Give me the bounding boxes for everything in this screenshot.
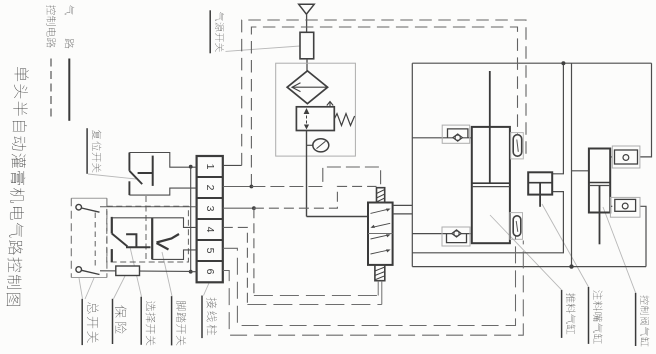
leader 推料气缸 from cylinder (490, 215, 562, 290)
svg-text:1: 1 (204, 164, 216, 170)
wire switch to filter (306, 59, 308, 71)
terminal block 接线柱 (197, 156, 223, 282)
air inlet triangle (299, 4, 315, 14)
air source switch valve (300, 32, 314, 59)
wire foot switch bottom to terminal5 (152, 250, 196, 260)
wire triangle to source switch (306, 14, 308, 32)
throttle check valve upper-left (442, 125, 470, 143)
reset switch wire bottom to terminal2 (129, 188, 196, 195)
wire bottom bus to lower-right throttle (640, 206, 646, 266)
label 推料气缸 (562, 290, 576, 338)
wire mid vertical to bottom bus (571, 63, 573, 266)
regulator spring (334, 114, 354, 126)
wire nozzle cylinder top port to top bus (552, 63, 563, 174)
svg-text:6: 6 (204, 269, 216, 275)
control wire terminal1 to upper reed switch (223, 164, 242, 166)
reset switch wire top to terminal1 (129, 153, 196, 168)
label 复位开关 (87, 128, 101, 174)
main switch mechanical linkage (94, 213, 96, 269)
main switch contact bottom (76, 267, 100, 275)
control wire terminal6 to lower reed switch (223, 241, 524, 336)
throttle check valve upper-right (612, 146, 640, 168)
pressure gauge (307, 139, 329, 152)
wire valve port A stub (393, 204, 413, 206)
main switch enclosure 总开关 (71, 198, 107, 277)
pneumatic bus bottom line (412, 266, 646, 268)
throttle check valve lower-right (610, 197, 640, 217)
reset switch NC pushbutton 复位开关 (129, 153, 152, 196)
reed switch lower (on cylinder) (510, 213, 523, 240)
legend air line label 气路 (65, 5, 75, 48)
label 注料嘴气缸 (589, 287, 603, 344)
svg-text:4: 4 (204, 227, 216, 233)
label 控制阀气缸 (636, 293, 650, 347)
leader 控制阀气缸 from cylinder (603, 207, 636, 293)
pneumatic bus left vertical (411, 63, 413, 266)
solenoid coil top (377, 188, 385, 203)
junction node terminal2 (250, 185, 254, 189)
throttle check valve lower-left (442, 227, 470, 246)
solenoid valve body (368, 203, 393, 265)
nozzle cylinder 注料嘴气缸 (528, 172, 552, 207)
legend control line sample (dashed) (50, 59, 52, 121)
wire upper-right throttle to cylinder (610, 156, 612, 158)
main switch contact top (76, 204, 100, 212)
leader 选择开关 (130, 247, 142, 297)
label 气源开关 (210, 10, 224, 53)
wire terminal3 stub (223, 207, 254, 209)
control wire terminal3 branch to top solenoid (254, 186, 377, 208)
junction node bottom bus (569, 264, 573, 268)
control wire terminal2 branch to top solenoid (251, 167, 380, 188)
supply elbow into valve (307, 216, 369, 218)
leader 复位开关 to switch (88, 174, 136, 179)
reed switch upper (on cylinder) (511, 133, 524, 159)
switch group dashed enclosure (107, 206, 189, 262)
legend control circuit label 控制电路 (47, 5, 56, 48)
title 单头半自动灌膏机电气路控制图 (7, 67, 29, 306)
control wire terminal3 branch to bottom solenoid (253, 208, 255, 295)
filter water separator (diamond) (287, 71, 327, 104)
control valve cylinder 控制阀气缸 (589, 149, 610, 245)
svg-text:2: 2 (204, 185, 216, 191)
wire stub to control valve cylinder (572, 170, 589, 172)
leader 接线柱 (204, 283, 210, 296)
label 总开关 (82, 299, 98, 345)
switch group divider (145, 196, 147, 262)
leader 注料嘴气缸 from cylinder (542, 204, 589, 287)
push cylinder 推料气缸 (472, 71, 510, 243)
svg-text:5: 5 (204, 248, 216, 254)
control wire terminal5 to lower reed switch (223, 237, 516, 326)
junction node top bus (561, 61, 565, 65)
gray frame around FRL unit (276, 63, 356, 156)
wire lower-right throttle to cylinder (610, 205, 612, 207)
bus switches top to terminal4 (112, 218, 197, 228)
label 接线柱 (202, 296, 217, 339)
wire to lower-left throttle (412, 233, 472, 235)
leader 总开关 (79, 278, 83, 299)
junction node common top (189, 165, 193, 169)
wire terminal2 stub (223, 186, 252, 188)
leader 气源开关 to valve (226, 46, 301, 51)
wire top bus right elbow to upper-right throttle (640, 63, 652, 157)
fuse 保险 (116, 266, 140, 276)
leader 保险 to fuse (114, 276, 126, 299)
wire common to terminal6 (191, 271, 197, 273)
label 脚踏开关 (172, 296, 187, 345)
pneumatic bus top line (412, 62, 651, 64)
foot switch 脚踏开关 (152, 218, 179, 259)
pressure regulator (296, 102, 334, 131)
solenoid coil bottom (375, 265, 385, 281)
control wire terminal2 to upper reed switch (251, 27, 517, 187)
wire main switch bottom through fuse (100, 270, 191, 273)
junction node common bottom (189, 270, 193, 274)
wire to upper-left throttle (412, 137, 472, 139)
svg-text:3: 3 (204, 206, 216, 212)
label 保险 (113, 299, 127, 344)
common vertical wire (190, 167, 192, 272)
legend air line sample (68, 59, 70, 121)
label 选择开关 (141, 297, 155, 346)
bus main switch top to terminal3 (100, 206, 197, 208)
leader 总开关 second (85, 278, 94, 299)
control wire terminal4 to bottom solenoid (223, 227, 248, 304)
junction node terminal3 (252, 206, 256, 210)
leader 脚踏开关 (162, 252, 172, 296)
selector switch 选择开关 (112, 217, 151, 262)
wire valve port B stub (393, 213, 413, 215)
supply line down from regulator (306, 131, 308, 217)
wire to nozzle cylinder bottom port (412, 192, 563, 253)
